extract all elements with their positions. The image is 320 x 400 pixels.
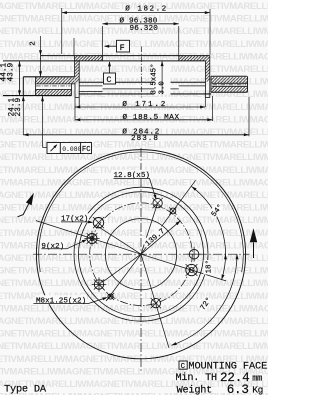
svg-text:FC: FC	[82, 146, 91, 154]
svg-text:Ø 96.380: Ø 96.380	[120, 16, 158, 25]
svg-text:MAGNETIVMARELLIWMAGNETIVMARELL: MAGNETIVMARELLIWMAGNETIVMARELLIWMAGNETIV…	[0, 316, 268, 327]
radial line through 9 hole extended	[36, 221, 141, 255]
angle dimension 54 and 18 arc	[192, 186, 228, 279]
note weight	[177, 383, 263, 397]
radial line to 17 hole	[96, 225, 142, 254]
svg-text:M8x1.25(x2): M8x1.25(x2)	[36, 297, 86, 305]
svg-text:0.080: 0.080	[62, 146, 81, 153]
outer chamfer circle	[39, 152, 244, 272]
dimension overall height 44.1/43.9	[0, 61, 21, 95]
svg-text:Ø 171.2: Ø 171.2	[122, 100, 167, 109]
svg-text:3.5x45°: 3.5x45°	[150, 63, 159, 94]
bolt hole A (12.8) upper right	[152, 198, 162, 208]
radial line through hole B extended	[141, 180, 196, 254]
section view: axis centerline	[140, 47, 142, 98]
threaded hole M8 lower left	[107, 293, 114, 300]
svg-text:6.3: 6.3	[227, 383, 249, 395]
label M8x1.25 (x2)	[33, 295, 107, 305]
internal edges seen through bore	[79, 82, 211, 94]
note minimum thickness	[176, 371, 263, 385]
svg-text:12.8(x5): 12.8(x5)	[114, 172, 150, 180]
angle dimension 72 arc	[171, 254, 238, 345]
svg-text:Kg: Kg	[252, 384, 263, 395]
svg-text:23.9: 23.9	[15, 97, 23, 116]
rotation arrow upper left	[18, 193, 34, 217]
svg-text:43.9: 43.9	[8, 62, 16, 81]
label 12.8 (x5)	[113, 170, 157, 200]
counterbored hole D (17)	[186, 264, 198, 276]
friction ring right half (vented sandwich section)	[211, 76, 248, 92]
datum F flag	[104, 40, 130, 53]
hole 17x2 upper left	[93, 217, 104, 228]
svg-text:MAGNETIVMARELLIWMAGNETIVMARELL: MAGNETIVMARELLIWMAGNETIVMARELLIWMAGNETIV…	[0, 329, 268, 340]
locating hole B	[169, 207, 176, 214]
hat left wall and hub cylinder	[75, 56, 80, 107]
svg-text:3.0: 3.0	[159, 81, 167, 94]
center bore circle	[105, 219, 176, 290]
dimension chamfer 3.5x45 / 3.0	[150, 61, 171, 95]
radial line to lower left bolt hole	[103, 254, 141, 282]
dimension diameter 171.2	[75, 98, 205, 121]
hat outer circle (182.2)	[74, 187, 208, 321]
hat top plate and lip	[3, 56, 210, 61]
bolt hole E (bottom)	[151, 298, 161, 308]
hat right wall and hub cylinder	[206, 56, 210, 98]
svg-text:MAGNETIVMARELLIWMAGNETIVMARELL: MAGNETIVMARELLIWMAGNETIVMARELLIWMAGNETIV…	[0, 203, 268, 214]
dimension outer diameter 284.2/283.8	[23, 97, 249, 143]
rotation arrow right	[250, 228, 257, 258]
svg-text:MAGNETIVMARELLIWMAGNETIVMARELL: MAGNETIVMARELLIWMAGNETIVMARELLIWMAGNETIV…	[0, 253, 268, 264]
hole 9x2 left	[84, 231, 99, 246]
svg-text:283.8: 283.8	[131, 135, 159, 143]
radial line through hole D extended	[141, 254, 226, 281]
svg-text:Min. TH: Min. TH	[176, 372, 217, 384]
svg-text:C: C	[181, 363, 186, 371]
svg-text:9(x2): 9(x2)	[41, 243, 64, 251]
svg-text:18°: 18°	[205, 260, 214, 274]
bolt circle (dash-dot)	[90, 203, 193, 306]
note type DA	[4, 383, 47, 395]
svg-text:C: C	[106, 75, 111, 85]
runout feature control frame 0.080 FC	[41, 96, 92, 154]
svg-text:96.320: 96.320	[130, 25, 159, 33]
dimension disc thickness 24.1/23.9	[9, 61, 42, 135]
dimension diameter 182.2	[62, 4, 210, 55]
front view centerlines	[33, 148, 250, 372]
radial line to bolt hole A	[141, 203, 158, 254]
bolt hole C (on horizontal axis)	[187, 247, 202, 262]
friction ring left half (vented sandwich section)	[3, 77, 75, 96]
radial line through hole E extended	[141, 254, 169, 348]
svg-text:17(x2): 17(x2)	[61, 216, 88, 224]
svg-text:Ø 182.2: Ø 182.2	[125, 4, 167, 13]
dimension bore diameter 96.380/96.320	[74, 16, 179, 55]
hat step circle (171.2)	[79, 192, 204, 317]
note mounting face	[179, 360, 267, 372]
bolt circle radius dimension 139.7	[141, 221, 181, 255]
svg-text:mm: mm	[252, 373, 262, 383]
svg-text:F: F	[120, 43, 125, 53]
svg-text:MAGNETIVMARELLIWMAGNETIVMARELL: MAGNETIVMARELLIWMAGNETIVMARELLIWMAGNETIV…	[0, 341, 268, 352]
label 9 (x2)	[40, 239, 87, 251]
svg-text:Ø 188.5 MAX: Ø 188.5 MAX	[123, 113, 180, 122]
svg-text:MAGNETIVMARELLIWMAGNETIVMARELL: MAGNETIVMARELLIWMAGNETIVMARELLIWMAGNETIV…	[0, 152, 268, 163]
label 17 (x2)	[60, 213, 93, 223]
svg-text:2: 2	[30, 41, 38, 46]
bolt hole lower left	[92, 277, 107, 292]
dimension diameter 188.5 MAX	[75, 96, 213, 122]
svg-text:Type DA: Type DA	[4, 383, 47, 395]
datum C flag	[104, 61, 116, 85]
radial line to M8 hole	[106, 254, 141, 301]
dimension 2 (lip)	[30, 36, 42, 56]
disc outer diameter circle	[36, 150, 245, 359]
svg-text:Weight: Weight	[177, 384, 213, 395]
